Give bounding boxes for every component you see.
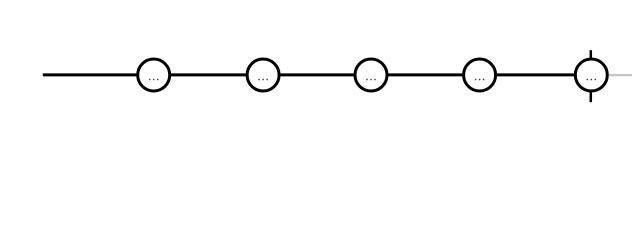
wire segment: left lead [43, 73, 138, 76]
inline component 3: circle symbol with "..." placeholder [355, 59, 387, 91]
wire segment: gray continuation to right edge [609, 74, 632, 76]
inline component 2: circle symbol with "..." placeholder [247, 59, 279, 91]
wire segment: between component 4 and 5 [496, 73, 576, 76]
inline component 1: circle symbol with "..." placeholder [138, 59, 170, 91]
inline component 5: circle symbol with "..." placeholder and terminal ticks [575, 59, 607, 91]
wire segment: between component 2 and 3 [280, 73, 356, 76]
terminal tick top of component 5 [590, 50, 593, 59]
inline component 4: circle symbol with "..." placeholder [464, 59, 496, 91]
terminal tick bottom of component 5 [590, 91, 593, 103]
wire segment: between component 1 and 2 [170, 73, 247, 76]
wire segment: between component 3 and 4 [388, 73, 464, 76]
